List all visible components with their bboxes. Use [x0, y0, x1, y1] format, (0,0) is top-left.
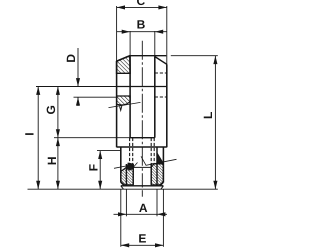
centerline lower segment: [141, 190, 143, 197]
L top extension: [171, 55, 218, 57]
E extension line right: [162, 189, 164, 247]
hidden groove edge right wall: [155, 72, 167, 74]
housing top hatch band (section): [117, 56, 131, 74]
dim I: [37, 87, 39, 190]
svg-text:F: F: [86, 164, 100, 171]
D top extension = long groove line: [36, 86, 117, 88]
centerline (dash-dot): [141, 41, 143, 188]
internal shoulder (bore bottom): [130, 137, 155, 139]
dim L: [214, 56, 216, 190]
svg-text:H: H: [45, 156, 59, 165]
left outer wall: [116, 61, 118, 147]
thread hidden line minor left: [132, 138, 134, 164]
hex flat line right: [156, 147, 158, 186]
lower leader tick: [133, 163, 137, 168]
top-left chamfer: [117, 56, 130, 62]
thread entry chamfer left: [130, 164, 134, 168]
lower leader line: [141, 156, 177, 165]
nut left wall: [120, 147, 122, 183]
thread hidden line major right: [153, 138, 155, 164]
D bottom extension: [74, 96, 118, 98]
G bottom extension line: [54, 137, 155, 139]
dim H: [57, 138, 59, 190]
thread hidden line major left: [129, 138, 131, 164]
dim D: [77, 48, 79, 87]
thread internal line: [133, 166, 151, 168]
svg-text:I: I: [22, 132, 36, 135]
svg-text:L: L: [201, 112, 215, 119]
dim G: [57, 87, 59, 138]
shoulder / cylinder bottom: [117, 146, 167, 148]
peen mark V: [120, 106, 122, 111]
thread minor wall right: [150, 164, 152, 185]
bottom face chamfer diagonal right: [161, 186, 164, 189]
B extension line left: [129, 31, 131, 56]
dim F: [99, 151, 101, 190]
hex flat line left: [125, 164, 127, 186]
svg-text:C: C: [136, 0, 145, 8]
nut left hatch (section): [121, 163, 133, 185]
dim C: [117, 6, 167, 8]
nut right chamfer diagonal: [157, 153, 163, 163]
nut bottom chamfer right: [160, 183, 163, 186]
bore right wall: [154, 56, 156, 137]
svg-text:B: B: [137, 17, 146, 31]
top face: [130, 55, 167, 57]
top-right chamfer: [155, 57, 167, 65]
A extension line left: [125, 189, 127, 216]
bottom long extension line: [28, 188, 218, 190]
svg-text:E: E: [138, 232, 146, 246]
A extension line right: [156, 189, 158, 216]
nut right hatch (section): [151, 164, 163, 185]
bottom face chamfer diagonal left: [121, 186, 124, 189]
thread minor wall left: [132, 164, 134, 185]
thread entry chamfer right: [151, 164, 154, 168]
svg-text:A: A: [139, 201, 148, 215]
nut right wall: [162, 147, 164, 183]
E extension line left: [120, 189, 122, 247]
groove line across part: [117, 86, 167, 88]
nut bottom chamfer left: [121, 183, 124, 186]
nut left dark chamfer blob: [126, 163, 133, 171]
dim B: [117, 31, 167, 33]
B extension line right: [154, 31, 156, 56]
upper leader line: [109, 102, 141, 107]
nut bottom face: [121, 185, 164, 187]
nut right dark chamfer triangle: [157, 153, 163, 164]
right outer wall: [166, 64, 168, 147]
bore left wall: [129, 56, 131, 138]
svg-text:G: G: [44, 105, 58, 114]
nut left leader: [114, 166, 128, 169]
crimp lip hatch blob (section): [117, 96, 131, 105]
C extension line left: [116, 6, 118, 61]
C extension line right: [166, 6, 168, 64]
F top extension: [97, 150, 121, 152]
svg-text:D: D: [64, 54, 78, 63]
dim E: [121, 244, 164, 246]
dim A: [114, 213, 168, 215]
thread hidden line minor right: [150, 138, 152, 164]
hidden lip edge right wall: [155, 96, 167, 98]
